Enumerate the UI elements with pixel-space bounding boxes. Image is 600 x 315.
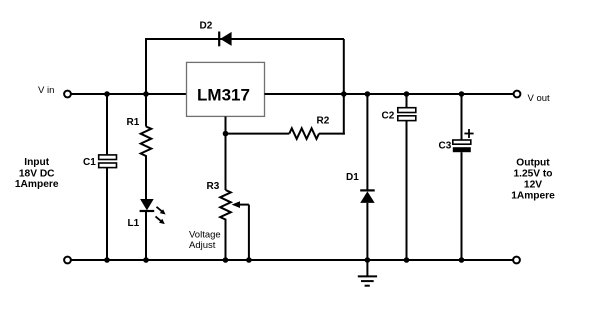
pot wiper arrow <box>232 201 249 260</box>
svg-text:C2: C2 <box>382 111 395 122</box>
svg-text:18V DC: 18V DC <box>19 168 55 179</box>
svg-text:Voltage: Voltage <box>189 229 221 240</box>
wire ADJ to R2 <box>226 133 290 135</box>
wire D2 left riser <box>145 39 147 94</box>
svg-text:LM317: LM317 <box>197 86 250 105</box>
label voltage adjust <box>189 229 221 251</box>
junction gnd/C1 <box>104 257 110 263</box>
wire output rail <box>265 93 514 95</box>
wire D2 top <box>145 38 344 40</box>
junction out/D2-R2 riser <box>341 91 347 97</box>
svg-text:C3: C3 <box>439 141 452 152</box>
resistor R3 potentiometer <box>220 134 231 260</box>
junction gnd/R3 <box>223 257 229 263</box>
svg-text:R2: R2 <box>317 115 330 126</box>
wire D2 right riser <box>343 39 345 135</box>
svg-text:R1: R1 <box>127 117 140 128</box>
junction ADJ <box>223 131 229 137</box>
junction input/R1 <box>143 91 149 97</box>
diode D1 <box>360 94 375 260</box>
junction gnd/wiper <box>246 257 252 263</box>
svg-text:1.25V to: 1.25V to <box>513 168 552 179</box>
junction gnd/D1 <box>365 257 371 263</box>
wire R2 to riser <box>319 133 345 135</box>
svg-text:Input: Input <box>24 157 49 168</box>
svg-text:V out: V out <box>528 93 551 104</box>
junction gnd/L1 <box>143 257 149 263</box>
svg-text:12V: 12V <box>524 179 542 190</box>
svg-text:L1: L1 <box>128 218 140 229</box>
junction gnd/C3 <box>459 257 465 263</box>
svg-text:Output: Output <box>516 157 550 168</box>
junction out/C3 <box>459 91 465 97</box>
label input block <box>15 157 59 190</box>
label output block <box>511 157 555 201</box>
junction out/C2 <box>404 91 410 97</box>
svg-text:R3: R3 <box>207 181 220 192</box>
svg-text:D2: D2 <box>200 21 213 32</box>
resistor R2 <box>289 128 319 139</box>
wire input rail <box>71 93 187 95</box>
capacitor C3 polarized <box>453 94 474 260</box>
terminal Vout <box>514 91 521 98</box>
resistor R1 <box>141 94 152 199</box>
svg-text:1Ampere: 1Ampere <box>15 179 59 190</box>
terminal bottom-right <box>513 257 520 264</box>
svg-text:Adjust: Adjust <box>189 240 216 251</box>
terminal Vin <box>64 91 71 98</box>
capacitor C1 <box>99 94 117 260</box>
svg-text:1Ampere: 1Ampere <box>511 191 555 202</box>
svg-text:V in: V in <box>38 85 54 96</box>
junction out/D1 <box>365 91 371 97</box>
IC U1 LM317 <box>187 62 265 116</box>
junction gnd/C2 <box>404 257 410 263</box>
wire ADJ pin <box>225 117 227 135</box>
junction input/C1 <box>104 91 110 97</box>
capacitor C2 <box>398 94 416 260</box>
svg-text:C1: C1 <box>83 157 96 168</box>
diode D2 <box>219 32 231 47</box>
ground <box>358 260 377 286</box>
wire bottom rail <box>71 259 513 261</box>
LED L1 <box>140 199 166 260</box>
terminal bottom-left <box>64 257 71 264</box>
svg-text:D1: D1 <box>346 172 359 183</box>
